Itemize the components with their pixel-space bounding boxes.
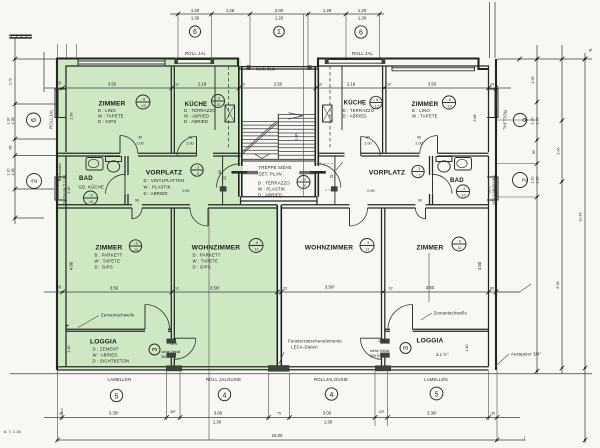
inner face north wall left <box>66 66 239 152</box>
window right wall zimmer <box>487 89 499 118</box>
svg-text:Briefkasten: Briefkasten <box>58 163 62 181</box>
svg-text:2.00: 2.00 <box>275 8 284 13</box>
svg-text:2.89: 2.89 <box>70 112 74 119</box>
svg-text:12: 12 <box>175 287 179 291</box>
svg-text:3.35⁵: 3.35⁵ <box>109 411 119 416</box>
svg-text:BAD: BAD <box>450 177 464 184</box>
svg-text:10.40: 10.40 <box>579 212 583 221</box>
svg-text:30: 30 <box>490 83 494 87</box>
svg-text:KÜCHE: KÜCHE <box>185 101 208 108</box>
svg-text:1.20: 1.20 <box>358 8 367 13</box>
benchmark bar top-left corner <box>9 35 31 38</box>
axis circle 6 top <box>189 26 200 37</box>
svg-text:WOHNZIMMER: WOHNZIMMER <box>192 245 240 252</box>
room stamp kueche right <box>370 96 382 108</box>
svg-text:4.00: 4.00 <box>477 261 482 270</box>
bad fixtures left: wc <box>106 157 122 162</box>
axis circle 5 bottom far-right <box>430 387 443 400</box>
svg-text:Fensterzwischenelemente: Fensterzwischenelemente <box>288 339 342 344</box>
loggia door from zimmer bottom-right <box>412 305 414 330</box>
bottom extension lines <box>58 370 498 442</box>
svg-text:85: 85 <box>218 170 222 174</box>
axis circle 6 top right <box>355 26 367 38</box>
svg-text:30: 30 <box>490 287 494 291</box>
svg-text:2.00: 2.00 <box>364 141 371 145</box>
room stamp zimmer top-right <box>442 96 455 109</box>
svg-text:8.36: 8.36 <box>556 281 560 288</box>
svg-text:D : TERRAZZO: D : TERRAZZO <box>184 108 216 113</box>
svg-text:1.70: 1.70 <box>9 78 13 85</box>
svg-text:15: 15 <box>283 287 287 291</box>
svg-text:D : ABRIED: D : ABRIED <box>144 191 168 196</box>
ground line below south facade <box>10 373 592 375</box>
axis circle 2 right <box>513 173 528 188</box>
svg-text:- 3: - 3 <box>416 167 420 171</box>
wohnzimmer door right <box>349 208 351 226</box>
bad fixtures left: sink <box>86 158 103 171</box>
kueche door right <box>360 137 362 157</box>
svg-text:12: 12 <box>175 83 179 87</box>
svg-text:D : TERRAZZO: D : TERRAZZO <box>343 108 375 113</box>
bad door left <box>106 174 126 194</box>
vorplatz partition right <box>334 156 336 205</box>
svg-text:1.30: 1.30 <box>536 117 540 124</box>
svg-text:ZIMMER: ZIMMER <box>412 101 439 108</box>
svg-text:W : TAPETE: W : TAPETE <box>95 259 121 264</box>
svg-text:D : SICHTBETON: D : SICHTBETON <box>93 359 130 364</box>
room stamp wohnzimmer right <box>360 239 374 253</box>
svg-text:2.00: 2.00 <box>136 141 143 145</box>
staircase landing edge <box>242 159 315 161</box>
svg-text:Kork 3cm: Kork 3cm <box>256 67 276 72</box>
south facade: wohnzimmer window right <box>290 367 376 370</box>
svg-text:D : TERRAZZO: D : TERRAZZO <box>258 181 290 186</box>
svg-text:30: 30 <box>491 412 495 416</box>
bad east wall left <box>125 156 128 205</box>
vorplatz partition left <box>222 156 224 205</box>
svg-text:W : PLASTIK: W : PLASTIK <box>258 187 285 192</box>
svg-text:2.00: 2.00 <box>186 141 193 145</box>
right exterior wall outer face <box>495 59 497 370</box>
stair east wall <box>315 66 318 197</box>
svg-text:W : TAPETE: W : TAPETE <box>193 259 219 264</box>
bottom dimension chain B y=440 <box>57 439 525 441</box>
svg-text:- 5: - 5 <box>88 194 92 198</box>
stair chevron mark <box>255 154 270 159</box>
svg-text:3.50⁵: 3.50⁵ <box>210 286 220 291</box>
svg-text:ROLL JAL: ROLL JAL <box>185 51 206 56</box>
zimmer bottom-right door <box>425 208 427 219</box>
bad door right <box>433 174 453 194</box>
svg-text:ZIMMER: ZIMMER <box>96 245 123 252</box>
svg-text:W : TAPETE: W : TAPETE <box>98 114 124 119</box>
svg-text:5: 5 <box>115 393 119 400</box>
right wall inner face lower part <box>488 156 490 367</box>
svg-text:gl: gl <box>589 48 592 52</box>
svg-text:3: 3 <box>403 346 410 350</box>
staircase diagonal guard double line <box>243 121 279 154</box>
svg-text:ROLL JAL: ROLL JAL <box>352 51 373 56</box>
axis circle 4 bottom right <box>325 388 337 400</box>
svg-text:1.30: 1.30 <box>324 420 333 425</box>
room stamp bad left <box>84 191 98 205</box>
left horizontal extension at wall top <box>15 59 57 218</box>
staircase right flight treads <box>278 115 315 156</box>
room stamp zimmer top-left <box>136 95 150 109</box>
svg-text:-10: -10 <box>88 200 93 204</box>
svg-text:1.20: 1.20 <box>531 176 535 183</box>
svg-text:2.18: 2.18 <box>347 82 356 87</box>
svg-text:VORPLATZ: VORPLATZ <box>146 170 182 177</box>
svg-text:LAMELLEN: LAMELLEN <box>424 377 448 382</box>
interior wall kueche/zimmer right <box>383 66 386 153</box>
svg-text:1.28: 1.28 <box>323 8 332 13</box>
svg-text:R: R <box>330 174 333 179</box>
south facade: pier at left loggia door <box>166 365 182 371</box>
svg-text:- 9: - 9 <box>195 172 199 176</box>
svg-text:LECA-Dielen: LECA-Dielen <box>291 345 318 350</box>
svg-text:0.90: 0.90 <box>182 189 189 193</box>
green tinted left apartment area <box>57 58 277 371</box>
svg-text:10.3: 10.3 <box>170 342 177 346</box>
right wall extension lines above building <box>490 2 496 58</box>
svg-text:0.90: 0.90 <box>367 189 374 193</box>
svg-text:4: 4 <box>330 392 334 399</box>
svg-text:ROLLJAL: ROLLJAL <box>49 109 54 129</box>
svg-text:siehe Detail: siehe Detail <box>161 350 180 354</box>
svg-text:-10: -10 <box>140 104 145 108</box>
svg-text:Zemantschwelle: Zemantschwelle <box>101 313 135 318</box>
staircase flight divider <box>277 114 279 159</box>
svg-text:6: 6 <box>31 118 38 122</box>
svg-text:2.00: 2.00 <box>415 141 422 145</box>
svg-text:3.50: 3.50 <box>426 285 435 290</box>
north facade outer wall right wing <box>318 59 489 70</box>
svg-text:2.18: 2.18 <box>198 82 207 87</box>
svg-text:KÜCHE: KÜCHE <box>344 100 367 107</box>
svg-text:- 6: - 6 <box>254 241 258 245</box>
svg-text:- 4: - 4 <box>365 241 369 245</box>
loggia north wall left <box>66 329 171 331</box>
loggia wall left end hook <box>66 326 69 330</box>
right margin chain x537 <box>536 45 538 374</box>
svg-text:- 3: - 3 <box>195 166 199 170</box>
svg-text:30: 30 <box>58 81 62 85</box>
svg-text:40: 40 <box>188 136 192 140</box>
svg-text:15: 15 <box>241 83 245 87</box>
svg-text:1.38: 1.38 <box>11 168 15 175</box>
room stamp wohnzimmer left <box>249 239 263 253</box>
wall between top rooms and vorplatz zone right <box>319 152 489 154</box>
svg-text:1.20: 1.20 <box>275 16 284 21</box>
kueche duct strip left: edge line and dashed shaft <box>214 66 216 130</box>
svg-text:12: 12 <box>388 287 392 291</box>
room stamp zimmer bottom-left <box>129 240 141 252</box>
svg-text:1.90: 1.90 <box>67 186 71 193</box>
wall wohnzimmer/zimmer bottom right + loggia partition <box>382 208 385 367</box>
svg-text:15: 15 <box>318 83 322 87</box>
svg-text:1.30: 1.30 <box>358 16 367 21</box>
bottom dimension chain A y=417.5 <box>44 417 520 419</box>
svg-text:D : ABRIED: D : ABRIED <box>258 193 282 198</box>
svg-text:2.06: 2.06 <box>557 147 561 154</box>
svg-text:12: 12 <box>223 176 227 180</box>
room stamp zimmer bottom-right <box>452 237 466 251</box>
axis circle 5 bottom far-left <box>110 389 122 401</box>
svg-text:1.20: 1.20 <box>7 168 11 175</box>
svg-text:BAD: BAD <box>79 175 93 182</box>
svg-text:90: 90 <box>418 199 422 203</box>
svg-text:-13: -13 <box>446 105 451 109</box>
svg-text:1.30: 1.30 <box>536 176 540 183</box>
svg-text:1.30: 1.30 <box>378 339 385 343</box>
svg-text:Ausspeier 3/4": Ausspeier 3/4" <box>511 352 542 357</box>
svg-text:40: 40 <box>417 136 421 140</box>
leader from chain y292 to right <box>496 284 531 292</box>
svg-text:1.40: 1.40 <box>67 345 71 352</box>
svg-text:4.00: 4.00 <box>69 261 74 270</box>
svg-text:3.50: 3.50 <box>110 286 119 291</box>
svg-text:D : ZEMENT: D : ZEMENT <box>93 347 119 352</box>
stair hall south wall <box>241 197 318 205</box>
svg-text:- 4: - 4 <box>461 187 465 191</box>
svg-text:1.99: 1.99 <box>531 76 535 83</box>
north facade outer wall left wing <box>57 59 238 371</box>
window axis lines bottom <box>209 208 429 440</box>
window left wall zimmer <box>55 89 67 118</box>
zimmer top-right door <box>437 136 439 154</box>
room stamp bad right <box>456 185 469 198</box>
svg-text:1.30: 1.30 <box>213 420 222 425</box>
svg-text:W : ABRIED: W : ABRIED <box>184 114 209 119</box>
kueche door left <box>196 137 198 157</box>
svg-text:D : ABRIED: D : ABRIED <box>184 119 208 124</box>
window zimmer top-left <box>78 59 165 67</box>
svg-text:85: 85 <box>9 145 13 149</box>
right margin chain x585 <box>584 53 586 443</box>
svg-text:40: 40 <box>138 136 142 140</box>
svg-text:-11: -11 <box>364 248 369 252</box>
room stamp vorplatz right <box>412 165 424 177</box>
axis circle 1 top <box>274 26 285 37</box>
svg-text:- 6: - 6 <box>457 240 461 244</box>
svg-text:15.00: 15.00 <box>272 433 283 438</box>
svg-text:1: 1 <box>277 29 281 36</box>
svg-text:D : GIPS: D : GIPS <box>193 265 211 270</box>
svg-text:-11: -11 <box>215 103 220 107</box>
right top extension dimension line <box>497 58 592 60</box>
svg-text:B : LINO: B : LINO <box>412 108 430 113</box>
svg-text:80: 80 <box>532 150 536 154</box>
room stamp treppe <box>297 176 310 189</box>
right margin chain x562 <box>561 45 563 374</box>
svg-text:- 6: - 6 <box>216 97 220 101</box>
svg-text:75: 75 <box>277 412 281 416</box>
svg-text:3.50: 3.50 <box>428 82 437 87</box>
entry door right <box>317 164 341 188</box>
svg-text:WOHNZIMMER: WOHNZIMMER <box>305 245 353 252</box>
svg-text:LAMELLEN: LAMELLEN <box>108 377 132 382</box>
svg-text:- 6: - 6 <box>374 98 378 102</box>
window left wall bad <box>55 177 67 200</box>
svg-text:ROLLJALOUSIE: ROLLJALOUSIE <box>314 377 348 382</box>
svg-text:2.50: 2.50 <box>274 82 283 87</box>
main dividing wall left apartment <box>57 204 277 206</box>
svg-text:TREPPE SIEHE: TREPPE SIEHE <box>259 165 292 170</box>
wall between top rooms and vorplatz zone left (two lines, door gaps) <box>57 152 241 154</box>
svg-text:1.30: 1.30 <box>531 117 535 124</box>
svg-text:4: 4 <box>223 392 227 399</box>
bad fixtures right: wc <box>436 157 452 162</box>
interior wall zimmer/kueche left <box>171 66 174 153</box>
svg-text:- 6: - 6 <box>447 98 451 102</box>
window kueche right <box>329 60 382 64</box>
svg-text:4.1 ½": 4.1 ½" <box>436 352 449 357</box>
wall zimmer/wohnzimmer bottom left + loggia partition <box>171 208 174 367</box>
svg-text:siehe Detail: siehe Detail <box>370 349 389 353</box>
svg-text:- 9: - 9 <box>301 184 305 188</box>
window axis extension lines from top chain <box>178 14 380 66</box>
svg-text:W : TAPETE: W : TAPETE <box>412 114 438 119</box>
svg-text:Par.Fenste 5 1 cm: Par.Fenste 5 1 cm <box>63 175 67 205</box>
svg-text:43⁵: 43⁵ <box>379 410 385 414</box>
svg-text:D : GIPS: D : GIPS <box>98 119 116 124</box>
svg-text:5: 5 <box>435 391 439 398</box>
zimmer top-left door <box>119 136 121 154</box>
svg-text:DET. PLAN .: DET. PLAN . <box>259 172 285 177</box>
stair up arrow <box>289 113 304 119</box>
svg-text:30: 30 <box>59 412 63 416</box>
loggia north wall right <box>385 329 489 331</box>
room stamp vorplatz left <box>191 164 203 176</box>
wohnzimmer door left <box>207 208 209 226</box>
green sliver entry door opening left stair wall <box>241 166 244 174</box>
staircase left flight treads <box>242 122 278 154</box>
svg-text:2: 2 <box>32 179 39 183</box>
svg-text:1.50: 1.50 <box>487 186 491 193</box>
svg-text:LOGGIA: LOGGIA <box>90 339 117 346</box>
inner face north wall right <box>318 66 489 152</box>
central axis line through staircase <box>303 14 305 196</box>
svg-text:1.40: 1.40 <box>465 344 469 351</box>
left wall inner face lower part <box>65 156 67 367</box>
svg-text:B : PARKETT: B : PARKETT <box>95 253 123 258</box>
svg-text:90: 90 <box>135 199 139 203</box>
room stamp kueche left <box>212 95 225 108</box>
interior dimension chain y=292 <box>44 291 520 293</box>
svg-text:30: 30 <box>58 285 62 289</box>
svg-text:6: 6 <box>359 30 363 37</box>
svg-text:1.46: 1.46 <box>295 133 299 140</box>
svg-text:2.88: 2.88 <box>473 114 477 121</box>
svg-text:3.00: 3.00 <box>323 411 332 416</box>
svg-text:- 6: - 6 <box>141 98 145 102</box>
party wall between apartments <box>277 205 281 367</box>
svg-text:3600 B: 3600 B <box>161 355 173 359</box>
svg-text:D : GIPS: D : GIPS <box>95 265 113 270</box>
svg-text:3: 3 <box>152 347 159 351</box>
svg-text:B : LINO: B : LINO <box>98 108 116 113</box>
axis circle 6 left <box>27 113 41 127</box>
axis circle 6 right <box>513 113 526 126</box>
svg-text:3.36⁵: 3.36⁵ <box>427 411 437 416</box>
svg-text:48⁵: 48⁵ <box>170 410 176 414</box>
svg-text:1.20: 1.20 <box>191 8 200 13</box>
svg-text:W : ABRIED: W : ABRIED <box>93 353 118 358</box>
south facade: central pier <box>268 365 290 371</box>
window stair bay <box>250 65 308 70</box>
right horizontal extensions <box>497 120 537 197</box>
svg-text:10: 10 <box>387 83 391 87</box>
window kueche left <box>178 60 211 64</box>
svg-text:- 6: - 6 <box>133 242 137 246</box>
svg-text:GD. KÜCHE: GD. KÜCHE <box>79 185 104 190</box>
svg-text:Zemantschwelle: Zemantschwelle <box>434 311 468 316</box>
svg-text:-10: -10 <box>460 194 465 198</box>
svg-text:W : PLASTIK: W : PLASTIK <box>144 185 171 190</box>
svg-text:- 3: - 3 <box>301 178 305 182</box>
entry door left: arc, leaf, door element <box>217 164 241 188</box>
svg-text:- 7: - 7 <box>416 174 420 178</box>
svg-text:-11: -11 <box>456 246 461 250</box>
window glass fills <box>78 60 165 65</box>
kueche duct strip right <box>341 66 343 130</box>
stair bay north wall (recessed) <box>238 67 318 69</box>
zimmer bottom-left door <box>131 208 133 219</box>
loggia/wohnzimmer door left: posts, leaf, arc <box>167 339 177 344</box>
svg-text:D : PARKETT: D : PARKETT <box>193 253 221 258</box>
svg-text:60: 60 <box>366 136 370 140</box>
svg-text:2: 2 <box>521 178 528 182</box>
window right wall bad <box>487 177 499 200</box>
south facade: wohnzimmer window left <box>182 367 268 370</box>
left margin vertical dimension chain <box>14 38 16 224</box>
south facade: loggia parapet left <box>57 367 166 370</box>
svg-text:300 B: 300 B <box>370 354 380 358</box>
stair west wall <box>239 66 242 197</box>
bad west wall right <box>430 156 433 205</box>
svg-text:ZIMMER: ZIMMER <box>417 245 444 252</box>
svg-text:3.00: 3.00 <box>214 411 223 416</box>
axis circle 4 bottom left <box>218 388 230 400</box>
small chain x44 <box>43 52 45 92</box>
svg-text:-12: -12 <box>373 105 378 109</box>
svg-text:D : ABRIED: D : ABRIED <box>343 114 367 119</box>
window zimmer top-right (recessed) <box>392 66 475 71</box>
svg-text:LOGGIA: LOGGIA <box>417 338 444 345</box>
svg-text:3.50: 3.50 <box>108 82 117 87</box>
axis circle 2 left <box>27 174 42 189</box>
south facade: loggia parapet right <box>391 367 489 370</box>
svg-text:ZIMMER: ZIMMER <box>99 101 126 108</box>
svg-text:Par.Fenste 5 1cm: Par.Fenste 5 1cm <box>492 176 496 205</box>
loggia/wohnzimmer door right <box>380 339 390 344</box>
NW corner wall-face extension lines <box>58 44 77 58</box>
axis circle 3 loggia right <box>400 343 411 354</box>
bad fixtures right: sink <box>455 158 472 171</box>
svg-text:-11: -11 <box>253 248 258 252</box>
svg-text:ROLLJAL: ROLLJAL <box>503 110 508 130</box>
main dividing wall right apartment <box>282 204 489 206</box>
svg-text:VORPLATZ: VORPLATZ <box>369 170 405 177</box>
svg-text:ROLL JALOUSIE: ROLL JALOUSIE <box>206 377 241 382</box>
svg-text:6: 6 <box>521 118 528 122</box>
svg-text:1.30: 1.30 <box>7 117 11 124</box>
svg-text:1.30: 1.30 <box>191 16 200 21</box>
axis circle 3 loggia left <box>149 344 160 355</box>
svg-text:6. 7. 1 16: 6. 7. 1 16 <box>4 429 21 434</box>
svg-text:6: 6 <box>193 29 197 36</box>
